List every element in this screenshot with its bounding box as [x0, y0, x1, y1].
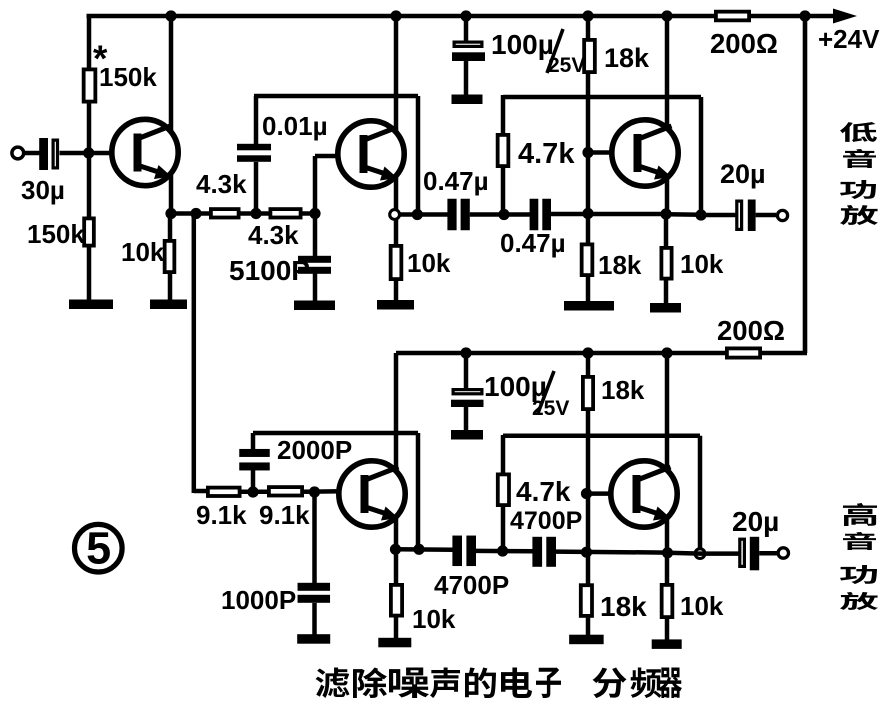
wire low bootstrap down — [416, 433, 421, 550]
wire Q2 emitter down — [394, 176, 399, 215]
node B Q2 base node — [309, 208, 320, 219]
node low output junction ring — [695, 549, 705, 559]
node Q5 base junction — [581, 488, 592, 499]
capacitor 5100P — [298, 256, 331, 263]
ground 18k divider — [564, 301, 614, 311]
ground 10k Q1 — [150, 300, 187, 310]
wire +24V right drop — [803, 16, 808, 353]
node top rail / right drop — [799, 10, 810, 21]
wire 200ohm to right drop — [762, 351, 807, 356]
wire Q4 emitter row right — [396, 547, 454, 552]
wire R 4.7k up — [501, 95, 506, 134]
resistor 200ohm top — [716, 12, 749, 21]
wire Q4 collector to low rail — [394, 353, 399, 472]
ground 5100P — [294, 301, 335, 311]
capacitor 100u/25V low electrolytic — [464, 353, 469, 389]
wire C 30u to Q1 base — [60, 151, 136, 156]
resistor 10k Q3 — [661, 248, 671, 279]
node Q3 base junction — [582, 147, 593, 158]
capacitor 100u/25V top electrolytic — [464, 16, 469, 41]
svg-text:5: 5 — [86, 523, 111, 574]
svg-text:9.1k: 9.1k — [259, 500, 310, 530]
wire R 10k Q3 ground — [664, 280, 669, 304]
wire bootstrap down to Q2 emitter — [416, 96, 421, 215]
wire to Q5 base — [588, 491, 632, 496]
ground 10k Q2 — [377, 300, 414, 310]
svg-text:200Ω: 200Ω — [717, 315, 785, 346]
resistor 10k Q5 — [662, 585, 673, 617]
ground 100u top — [452, 95, 483, 105]
capacitor 0.47u first — [447, 199, 456, 231]
wire 18k low divider middle — [586, 411, 591, 584]
svg-text:0.47µ: 0.47µ — [500, 228, 566, 258]
capacitor 4700P first — [452, 536, 462, 567]
svg-text:10k: 10k — [680, 591, 724, 621]
svg-text:20µ: 20µ — [732, 506, 779, 537]
resistor 18k divider upper — [584, 40, 595, 72]
wire C 20u low to output — [759, 551, 777, 556]
svg-text:0.47µ: 0.47µ — [423, 166, 489, 196]
wire to C 20u low — [700, 551, 739, 556]
node 100u low rail — [460, 347, 471, 358]
wire R 150k lower to ground — [87, 247, 92, 301]
wire branch down to low channel — [192, 214, 197, 494]
label high-pass output chinese — [843, 503, 877, 526]
wire node F to R 4.7k low — [501, 507, 506, 551]
wire low bootstrap horizontal — [253, 431, 418, 436]
capacitor 1000P — [298, 583, 331, 591]
capacitor 4700P second — [532, 537, 542, 567]
svg-text:18k: 18k — [601, 375, 645, 405]
wire low rail to R 18k upper — [586, 353, 591, 376]
wire 4.3k to base node B — [302, 211, 316, 216]
capacitor 20u low electrolytic — [740, 539, 745, 566]
ground 150k lower — [69, 300, 113, 310]
wire C 0.01u up — [254, 96, 259, 144]
wire rail to R 18k upper — [586, 16, 591, 39]
ground 1000P — [297, 634, 330, 644]
wire to Q2 base — [315, 154, 360, 159]
svg-text:18k: 18k — [598, 250, 642, 280]
title chinese electronic crossover — [316, 668, 350, 699]
output terminal top — [777, 210, 787, 220]
capacitor 30u input electrolytic — [39, 138, 48, 170]
node input bias junction — [83, 147, 94, 158]
wire to C 20u top — [701, 213, 736, 218]
svg-text:100µ: 100µ — [491, 29, 554, 60]
resistor 150k lower — [84, 218, 94, 245]
transistor Q2 — [338, 121, 404, 187]
wire to node E — [304, 489, 361, 494]
node low divider row junction — [581, 547, 592, 558]
svg-text:5100P: 5100P — [229, 255, 310, 286]
wire R 4.7k low up — [501, 435, 506, 474]
ground 18k low divider — [569, 635, 604, 645]
wire C 1000P ground — [312, 603, 317, 635]
svg-text:9.1k: 9.1k — [196, 500, 247, 530]
wire C 0.47u second to divider — [551, 212, 667, 217]
resistor 9.1k second — [269, 487, 302, 495]
low channel supply rail — [396, 351, 726, 356]
wire 9.1k junction — [242, 490, 268, 495]
wire R 10k Q2 ground — [394, 281, 399, 301]
svg-text:1000P: 1000P — [221, 585, 296, 615]
ground 10k Q3 — [650, 303, 681, 313]
node E Q4 base node — [309, 486, 320, 497]
node Q3 emitter row — [660, 208, 671, 219]
wire C 4700P second to divider — [555, 552, 667, 553]
wire corner to R 9.1k — [194, 489, 207, 494]
node 100u rail — [460, 10, 471, 21]
wire Q2 collector to rail — [394, 16, 399, 133]
wire Q1 emitter to R 10k — [168, 214, 173, 241]
output terminal low — [778, 548, 788, 558]
wire node B to C 5100P — [313, 214, 318, 258]
wire C 5100P to ground — [313, 273, 318, 301]
wire Q4 emitter down — [394, 517, 399, 550]
node Q3 collector rail — [661, 10, 672, 21]
svg-text:200Ω: 200Ω — [710, 28, 778, 59]
wire node B up — [313, 156, 318, 214]
node F between caps — [497, 545, 508, 556]
svg-text:150k: 150k — [27, 219, 85, 249]
wire input to C 30u — [25, 151, 41, 156]
transistor Q4 — [339, 461, 405, 527]
resistor 9.1k first — [208, 488, 240, 496]
wire bootstrap horizontal — [254, 94, 418, 99]
wire Q1 collector to rail — [169, 16, 174, 132]
svg-text:18k: 18k — [600, 591, 647, 622]
top power rail +24V — [87, 14, 837, 19]
wire Q2 emitter row right — [399, 212, 448, 217]
svg-text:10k: 10k — [412, 604, 456, 634]
svg-text:+24V: +24V — [818, 24, 880, 54]
resistor 4.7k top channel — [498, 135, 509, 166]
wire R 150k upper to base node — [87, 104, 92, 218]
svg-text:4700P: 4700P — [510, 507, 582, 535]
resistor 4.3k second — [270, 209, 300, 217]
wire R 10k Q5 ground — [665, 619, 670, 640]
wire emitter row to branch — [171, 211, 210, 216]
wire Q5 emitter down — [665, 518, 670, 553]
wire Q3 collector to rail — [665, 16, 670, 129]
svg-text:10k: 10k — [121, 237, 165, 267]
wire low feedback down — [698, 436, 703, 554]
resistor 10k Q2 — [391, 246, 402, 279]
ground 10k Q4 — [378, 638, 411, 648]
wire Q5 emitter row right — [668, 551, 702, 556]
wire Q1 emitter down — [169, 174, 174, 214]
svg-text:10k: 10k — [407, 248, 451, 278]
transistor Q3 — [612, 120, 678, 186]
node 18k rail — [582, 10, 593, 21]
resistor 18k low divider upper — [583, 377, 593, 409]
wire node D to C 2000P — [251, 470, 256, 492]
capacitor 0.47u second — [530, 199, 539, 231]
svg-text:25V: 25V — [532, 397, 569, 420]
wire between 4.3k resistors — [240, 211, 269, 216]
svg-text:30µ: 30µ — [21, 175, 65, 205]
wire 4.7k feedback horizontal — [503, 95, 701, 100]
wire C 0.47u to node C — [470, 212, 530, 217]
svg-text:150k: 150k — [99, 62, 157, 92]
wire Q3 emitter down — [665, 178, 670, 215]
resistor 150k upper — [84, 69, 96, 101]
node divider row junction — [582, 208, 593, 219]
resistor 10k Q4 — [391, 585, 402, 616]
capacitor 0.01u bootstrap — [237, 144, 271, 151]
node Q1 emitter row — [165, 208, 176, 219]
wire node E to C 1000P — [312, 492, 317, 584]
node output junction top — [695, 209, 706, 220]
wire Q2 emitter to R 10k — [394, 219, 399, 245]
node A mid filter — [250, 208, 261, 219]
wire R 18k lower ground — [586, 277, 591, 303]
resistor 200ohm low — [727, 348, 760, 357]
transistor Q5 — [611, 461, 677, 527]
node Q2 emitter ring junction — [390, 210, 400, 220]
wire 18k divider middle — [586, 74, 591, 243]
svg-text:4700P: 4700P — [434, 570, 509, 600]
node Q5 emitter row — [662, 547, 673, 558]
wire low feedback horizontal — [503, 434, 700, 439]
label low-pass output chinese — [840, 122, 877, 142]
node C between caps — [498, 209, 509, 220]
svg-text:4.7k: 4.7k — [518, 138, 575, 170]
resistor 4.7k low channel — [498, 474, 509, 505]
svg-text:4.3k: 4.3k — [196, 169, 247, 199]
svg-text:20µ: 20µ — [720, 159, 766, 189]
svg-text:4.3k: 4.3k — [248, 220, 299, 250]
node 18k low rail — [582, 347, 593, 358]
wire C 2000P up — [251, 433, 256, 450]
wire Q5 collector to low rail — [665, 353, 670, 471]
resistor 10k Q1 emitter — [165, 241, 175, 272]
+24V arrow head — [833, 9, 857, 24]
wire R 18k low ground — [586, 618, 591, 636]
resistor 4.3k first — [211, 209, 239, 217]
wire C 20u to output — [756, 213, 776, 218]
node D 2000P junction — [247, 486, 258, 497]
resistor 18k low divider lower — [581, 585, 592, 616]
node bootstrap emitter junction — [412, 209, 423, 220]
capacitor 2000P — [239, 449, 270, 457]
wire rail corner to R 150k upper — [87, 14, 92, 68]
wire node A to C 0.01u — [254, 162, 259, 214]
node Q5 collector rail — [661, 347, 672, 358]
wire node C to R 4.7k — [501, 168, 506, 215]
node low bootstrap junction — [413, 544, 424, 555]
capacitor 20u top electrolytic — [737, 201, 742, 229]
wire Q4 emitter to R 10k — [394, 549, 399, 584]
svg-text:25V: 25V — [548, 54, 585, 77]
wire R 10k Q1 to ground — [168, 274, 173, 300]
wire Q3 emitter to R 10k — [664, 214, 669, 247]
wire R 10k Q4 ground — [394, 617, 399, 639]
wire Q3 emitter row right — [666, 212, 702, 217]
svg-text:0.01µ: 0.01µ — [262, 111, 328, 141]
svg-text:4.7k: 4.7k — [516, 476, 571, 507]
resistor 18k divider lower — [582, 244, 593, 275]
wire feedback down to Q3 emitter — [699, 97, 704, 215]
ground 10k Q5 — [652, 639, 682, 649]
transistor Q1 — [112, 119, 178, 185]
wire to Q3 base — [588, 150, 634, 155]
svg-text:18k: 18k — [604, 43, 650, 73]
node Q1 collector rail — [165, 10, 176, 21]
svg-text:10k: 10k — [680, 249, 724, 279]
svg-text:2000P: 2000P — [277, 435, 352, 465]
node Q2 collector rail — [390, 10, 401, 21]
figure number 5 circled — [75, 523, 123, 574]
node branch to low channel — [190, 208, 201, 219]
wire Q5 emitter to R 10k — [665, 553, 670, 584]
wire C 4700P to node F — [475, 549, 533, 554]
input terminal — [12, 147, 24, 159]
node Q4 emitter row — [390, 544, 401, 555]
ground 100u low — [451, 430, 483, 440]
